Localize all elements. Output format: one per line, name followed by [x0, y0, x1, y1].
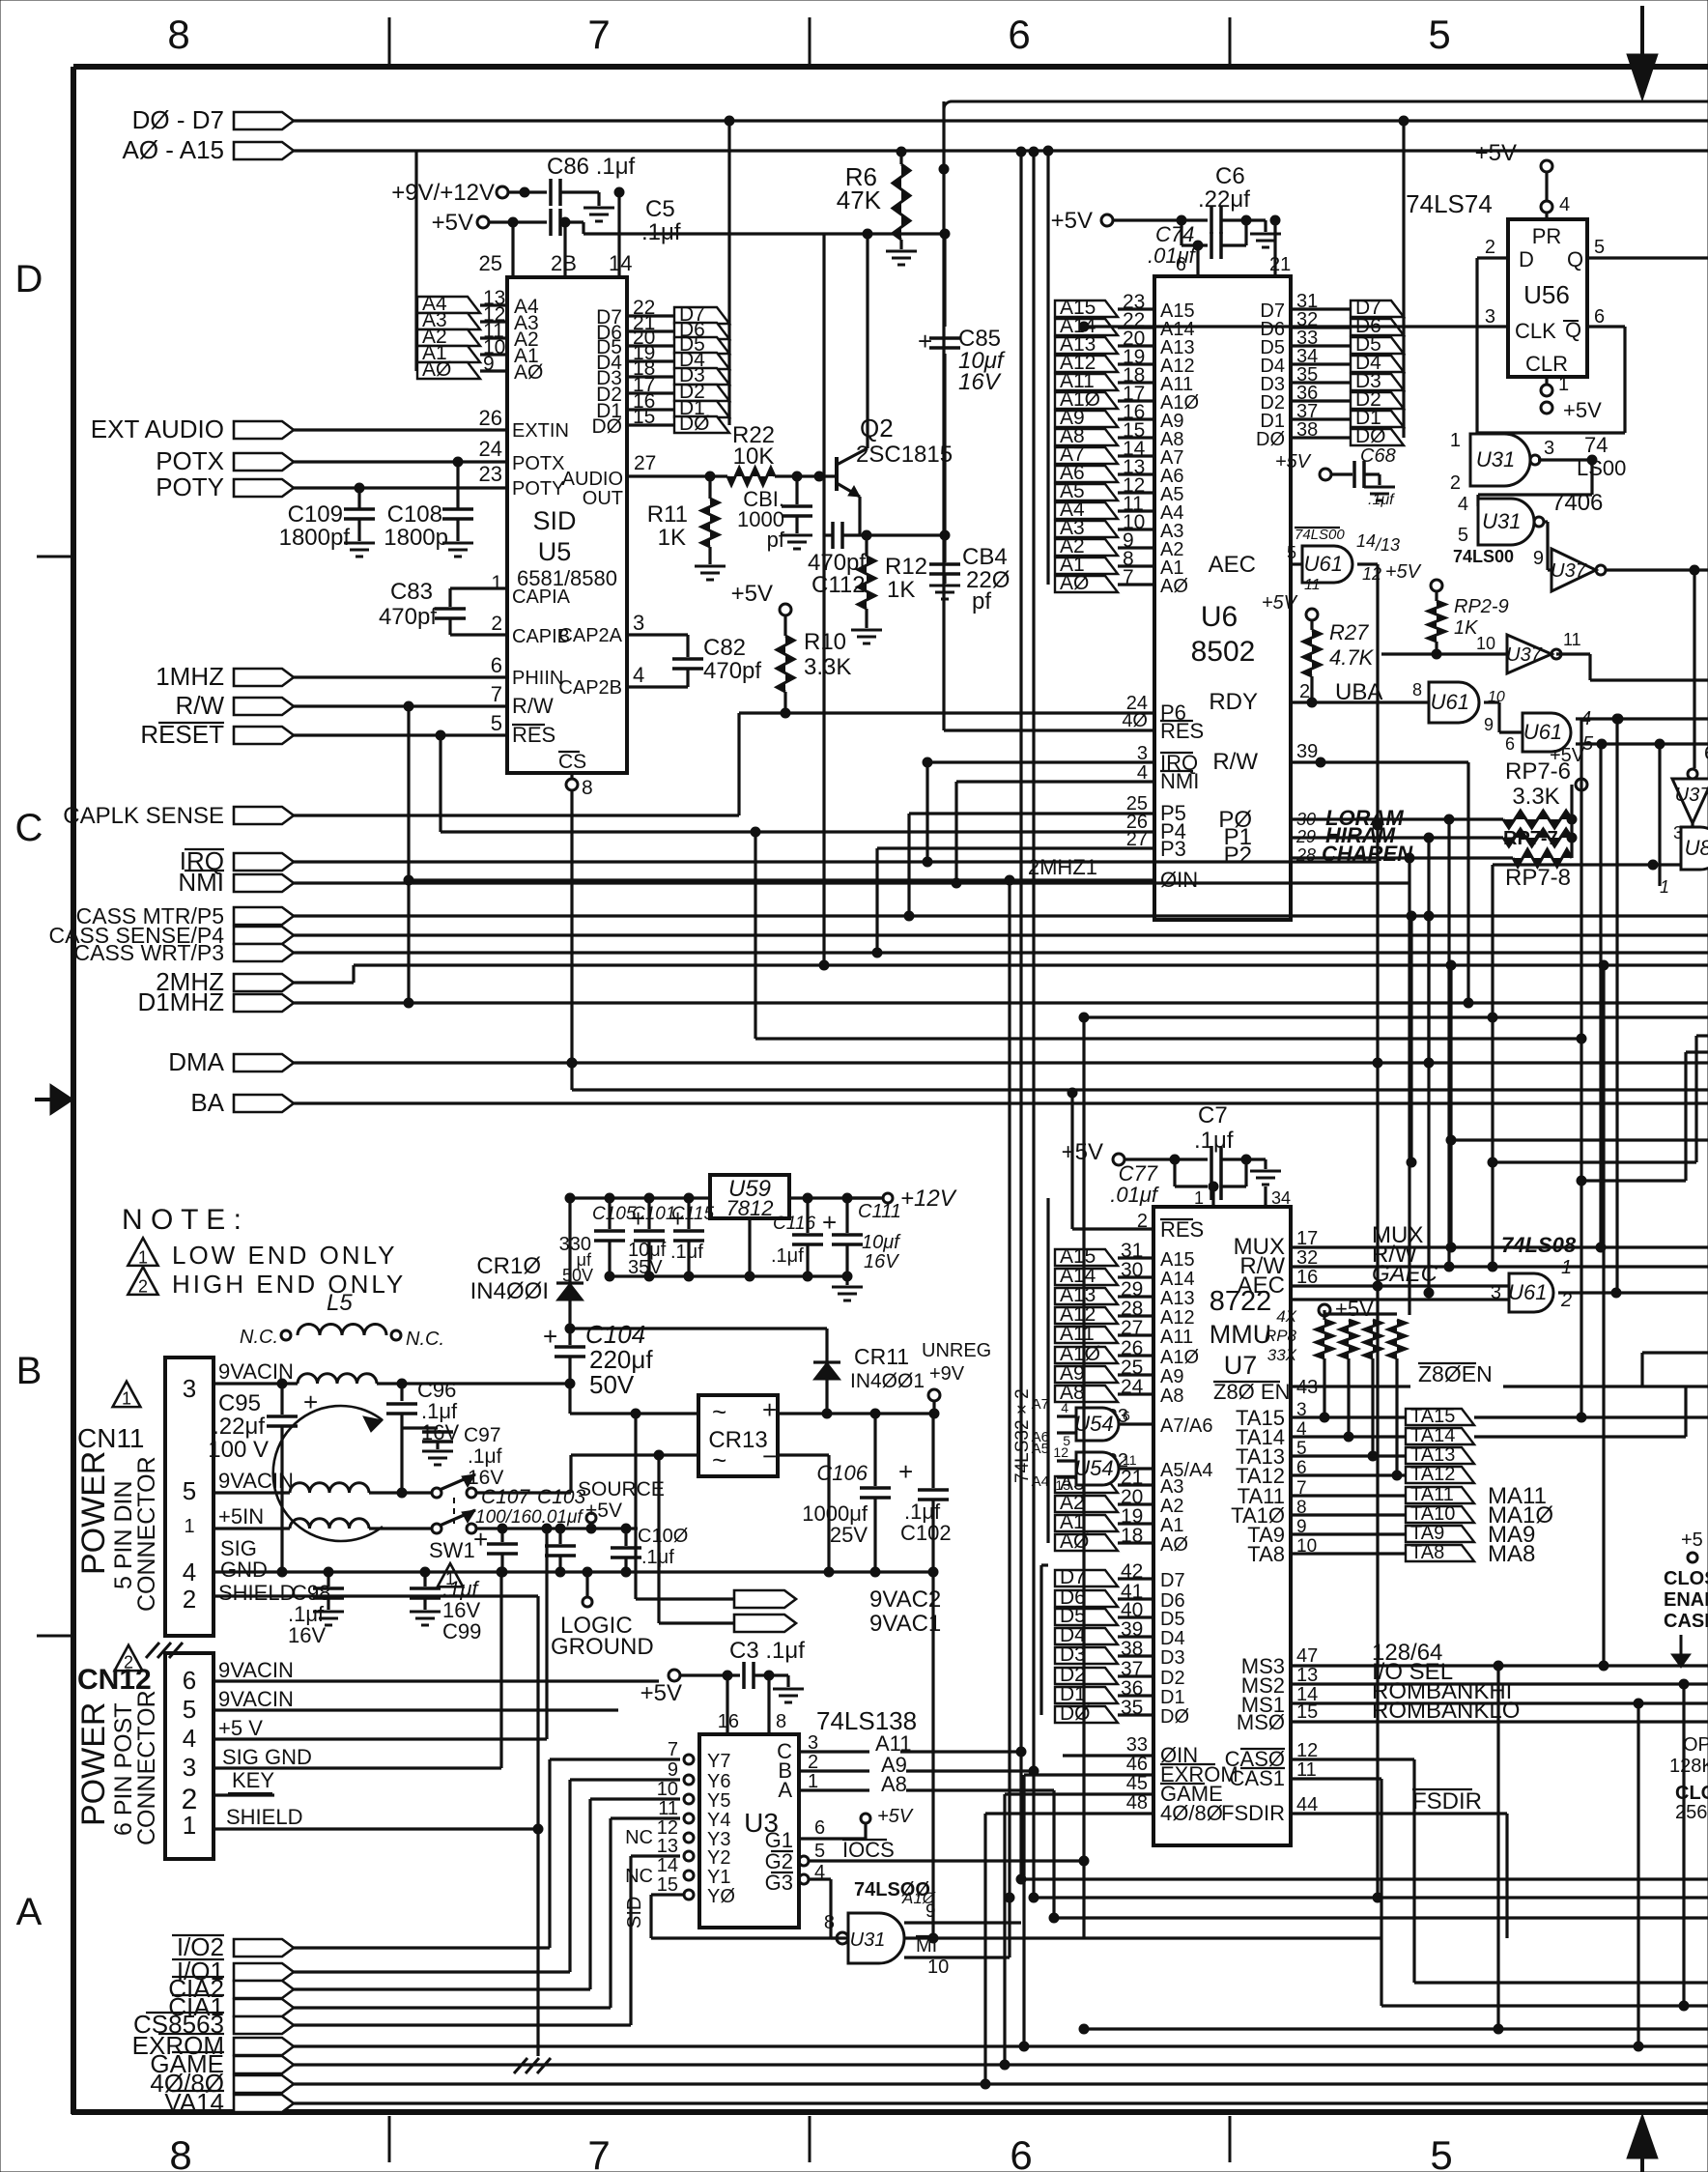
svg-text:U61: U61 [1508, 1280, 1547, 1304]
microprocessor U6 8502 body [1154, 276, 1291, 920]
node D1MHZ tag [234, 994, 294, 1012]
node NMI tag [234, 874, 294, 892]
svg-text:CONNECTOR: CONNECTOR [133, 1456, 160, 1612]
wire D0-D7 bus [294, 119, 1708, 122]
wire BA long [294, 1101, 1708, 1104]
svg-text:TA15: TA15 [1410, 1406, 1455, 1427]
svg-text:0.01μf: 0.01μf [531, 1507, 584, 1528]
svg-text:38: 38 [1296, 419, 1318, 441]
wire vertical 1502 [1449, 965, 1452, 1247]
svg-text:2: 2 [491, 613, 502, 635]
svg-text:SID: SID [624, 1897, 645, 1929]
wire U61c output [1558, 1291, 1708, 1294]
wire 2MHZ1 row to U6 phi-in [409, 878, 1154, 881]
svg-text:A15: A15 [1160, 1249, 1195, 1271]
wire 9VACIN pin5 riser to bridge [569, 1455, 572, 1493]
svg-text:pf: pf [767, 528, 785, 552]
svg-text:GROUND: GROUND [551, 1634, 654, 1660]
svg-text:RDY: RDY [1209, 689, 1258, 715]
inverter U37 c vertical at right edge [1672, 779, 1708, 823]
svg-text:A14: A14 [1160, 1269, 1195, 1290]
svg-text:15: 15 [657, 1874, 678, 1896]
svg-text:U54: U54 [1074, 1456, 1113, 1480]
svg-text:25V: 25V [830, 1523, 868, 1547]
svg-text:2: 2 [183, 1585, 196, 1614]
wire CAPLK SENSE right [294, 814, 739, 816]
svg-text:10: 10 [1476, 634, 1495, 653]
resistor R22 10K [727, 468, 775, 485]
wire Y0 run to CS region [651, 1893, 684, 1896]
svg-text:.01μf: .01μf [1148, 243, 1198, 268]
capacitor C116 .1uf [806, 1198, 809, 1233]
svg-text:4: 4 [183, 1724, 196, 1753]
node CASS MTR/P5 tag [234, 907, 294, 925]
capacitor C101 10uf 35V [647, 1198, 650, 1229]
svg-text:ENAB: ENAB [1664, 1589, 1708, 1611]
U7 address tags A15-A0 [1055, 1249, 1118, 1266]
svg-text:FSDIR: FSDIR [1412, 1788, 1482, 1815]
wire U37b input [1381, 652, 1507, 655]
svg-text:5: 5 [183, 1476, 196, 1505]
wire bus y1964 [1034, 1896, 1708, 1899]
wire CIA2 to decoder [294, 1987, 590, 1990]
svg-text:+9V/+12V: +9V/+12V [391, 180, 495, 206]
svg-text:NC: NC [625, 1827, 653, 1848]
svg-text:6: 6 [1176, 254, 1186, 275]
wire bus y1075 [755, 1037, 1581, 1040]
wire IOCS riser [1082, 1861, 1085, 1938]
svg-text:R/W: R/W [1212, 749, 1258, 775]
wire vertical 1637 upper [1580, 719, 1582, 1039]
wire P4 row to U6 pin26 [441, 830, 1154, 833]
wire A0-A15 bus [294, 149, 1708, 152]
svg-text:U54: U54 [1074, 1412, 1113, 1436]
svg-text:UBA: UBA [1335, 679, 1382, 705]
capacitor C100 .1uf [624, 1529, 627, 1546]
svg-text:CAS1: CAS1 [1230, 1766, 1285, 1790]
svg-text:TA14: TA14 [1410, 1425, 1455, 1446]
svg-text:A12: A12 [1160, 1307, 1195, 1329]
wire U7 pin34 stub [1264, 1186, 1267, 1207]
wire D-bus drop right of U5 [727, 121, 730, 425]
svg-text:6: 6 [1123, 1408, 1130, 1423]
svg-text:+: + [762, 1395, 777, 1424]
svg-text:8: 8 [582, 777, 593, 799]
wire I/O2 to decoder [294, 1946, 550, 1949]
svg-text:2SC1815: 2SC1815 [856, 442, 953, 468]
svg-text:11: 11 [1123, 1452, 1137, 1468]
logic gate U61 b [1523, 713, 1571, 752]
connector CN11 body [165, 1357, 213, 1636]
svg-text:DØ: DØ [1160, 1706, 1189, 1728]
svg-text:8502: 8502 [1191, 636, 1256, 668]
svg-text:+5V: +5V [432, 210, 473, 236]
wire RESET branch down to P4 row [439, 735, 441, 832]
svg-text:D7: D7 [1060, 1566, 1086, 1588]
capacitor C98 .1uf 16V [327, 1572, 329, 1586]
top ruler tick 6/5 [1229, 17, 1232, 64]
bottom ruler tick 7/6 [809, 2116, 811, 2162]
svg-text:B: B [16, 1350, 43, 1392]
svg-text:C68: C68 [1360, 445, 1396, 467]
switch SW1 [432, 1488, 441, 1498]
logic gate U31 a 74LS00 [1470, 434, 1530, 486]
svg-text:2MHZ1: 2MHZ1 [1028, 855, 1097, 879]
svg-text:7: 7 [491, 682, 502, 706]
svg-text:RES: RES [1160, 1217, 1204, 1242]
svg-text:RP2-9: RP2-9 [1454, 596, 1509, 617]
svg-text:TA8: TA8 [1410, 1542, 1444, 1563]
svg-text:/13: /13 [1374, 535, 1400, 555]
svg-text:POWER: POWER [75, 1451, 112, 1575]
logic gate U54 b 74LS32 [1076, 1452, 1119, 1485]
svg-text:74LS08: 74LS08 [1501, 1233, 1577, 1257]
wire bus y1203 [1493, 1160, 1696, 1163]
svg-text:+: + [898, 1457, 913, 1486]
wire LORAM riser down [1447, 819, 1450, 1267]
wire A10 line into gate [1008, 1898, 1011, 1958]
svg-text:RESET: RESET [140, 720, 224, 749]
svg-text:MA8: MA8 [1488, 1541, 1535, 1567]
ground at C6 [1264, 220, 1267, 232]
logic gate U61 a [1429, 682, 1479, 723]
svg-text:6: 6 [183, 1666, 196, 1695]
svg-text:A7/A6: A7/A6 [1160, 1415, 1212, 1437]
svg-text:16V: 16V [288, 1623, 326, 1647]
top ruler tick 8/7 [388, 17, 391, 64]
capacitor C108 1800pf [456, 462, 459, 509]
svg-text:8: 8 [1412, 680, 1422, 700]
svg-text:C102: C102 [900, 1521, 952, 1545]
svg-text:D1MHZ: D1MHZ [137, 987, 224, 1016]
svg-text:DØ: DØ [1060, 1702, 1091, 1725]
svg-text:IN4ØØI: IN4ØØI [470, 1278, 549, 1304]
svg-text:FSDIR: FSDIR [1221, 1801, 1285, 1825]
wire +5V riser to source [545, 1529, 548, 1739]
svg-text:POTY: POTY [512, 478, 564, 500]
svg-text:4Ø: 4Ø [1122, 710, 1148, 731]
wire 2MHZ jog up [352, 965, 355, 983]
svg-text:AØ - A15: AØ - A15 [123, 135, 225, 164]
wire U5 pin27 audio out [627, 474, 727, 477]
wire U5 pin25 stub [511, 222, 514, 277]
svg-text:~: ~ [712, 1445, 726, 1474]
svg-text:RP8: RP8 [1265, 1327, 1297, 1345]
svg-text:+5V: +5V [1335, 1297, 1374, 1321]
svg-text:4: 4 [1559, 194, 1570, 215]
capacitor C104 220uf 50V [568, 1329, 571, 1345]
wire D1MHZ long [294, 1001, 1708, 1004]
svg-text:33X: 33X [1267, 1346, 1297, 1364]
wire logic rail down [931, 1572, 934, 1938]
wire A-bus drop to U5 [414, 151, 417, 371]
svg-text:CLOS: CLOS [1675, 1783, 1708, 1804]
capacitor C111 10uf 16V [845, 1198, 848, 1233]
svg-text:CAPLK SENSE: CAPLK SENSE [63, 803, 224, 829]
svg-text:9VACIN: 9VACIN [218, 1469, 294, 1493]
svg-text:11: 11 [1304, 577, 1321, 593]
wire regulator input rail [570, 1196, 710, 1199]
logic gate U31 c bottom [829, 1879, 832, 1938]
wire 9VAC1 to bridge [659, 1621, 734, 1624]
svg-text:10: 10 [927, 1957, 949, 1978]
svg-text:14: 14 [657, 1855, 678, 1876]
wire R22 to Q2 base [775, 474, 837, 477]
svg-text:1: 1 [122, 1389, 131, 1409]
svg-text:AEC: AEC [1209, 552, 1256, 578]
svg-text:R/W: R/W [512, 694, 554, 718]
svg-text:CAP2A: CAP2A [558, 625, 622, 646]
svg-text:NC: NC [625, 1866, 653, 1887]
svg-text:RP7-8: RP7-8 [1505, 865, 1571, 891]
svg-text:D1: D1 [1160, 1687, 1185, 1708]
svg-text:POWER: POWER [75, 1702, 112, 1826]
wire regulator ground rail [610, 1274, 847, 1277]
wire DMA long [294, 1061, 1708, 1064]
node I/O2 tag [234, 1939, 294, 1957]
svg-text:DMA: DMA [168, 1047, 224, 1076]
svg-text:28: 28 [1295, 845, 1316, 865]
svg-text:U5: U5 [538, 537, 572, 566]
wire U6 pin21 stub [1273, 220, 1276, 276]
svg-text:C99: C99 [442, 1619, 481, 1643]
svg-text:.1μf: .1μf [771, 1245, 804, 1267]
top fold arrow [1640, 6, 1644, 56]
svg-text:NMI: NMI [178, 868, 224, 897]
svg-text:AØ: AØ [1160, 576, 1188, 597]
wire vertical 1057 [1019, 152, 1022, 1752]
svg-text:U6: U6 [1201, 601, 1238, 633]
capacitor C106 1000uf 25V [873, 1414, 876, 1486]
wire RES riser from bus corner [942, 101, 945, 730]
svg-text:+: + [473, 1525, 488, 1554]
wire vertical 1479 upper [1427, 916, 1430, 1063]
U56 CLR pin 1 [1545, 377, 1548, 385]
svg-text:3: 3 [183, 1374, 196, 1403]
svg-text:6: 6 [814, 1817, 825, 1839]
wire R/W branch down [407, 706, 410, 1003]
svg-text:SHIELD: SHIELD [218, 1581, 295, 1605]
svg-text:74LS74: 74LS74 [1406, 189, 1493, 218]
svg-text:A2: A2 [1160, 1496, 1183, 1517]
wire RES row to U6 pin40 [944, 729, 1154, 731]
svg-text:+5V: +5V [1550, 745, 1585, 766]
svg-text:CHAREN: CHAREN [1322, 842, 1413, 866]
wire bus y1985 [1054, 1916, 1708, 1919]
wire CR13 plus output [778, 1412, 933, 1415]
svg-text:PR: PR [1532, 224, 1562, 248]
svg-text:IN4ØØ1: IN4ØØ1 [850, 1370, 925, 1392]
svg-text:2: 2 [1450, 472, 1461, 494]
node CIA1 tag [234, 1999, 294, 2016]
svg-text:U61: U61 [1304, 552, 1343, 576]
wire bus y1945 [1021, 1877, 1708, 1880]
capacitor C112 470pf in emitter line [823, 533, 833, 536]
wire CASS WRT long [294, 951, 1708, 954]
svg-text:1800pf: 1800pf [279, 525, 351, 551]
svg-text:Y7: Y7 [707, 1751, 730, 1772]
svg-text:BA: BA [190, 1088, 224, 1117]
wire switch to source node [476, 1527, 638, 1529]
svg-text:+5V: +5V [1385, 561, 1422, 583]
svg-text:1: 1 [1558, 374, 1569, 395]
inverter U37 a 7406 [1544, 520, 1548, 523]
svg-text:U37: U37 [1675, 785, 1708, 806]
svg-text:5: 5 [183, 1695, 196, 1724]
wire D-bus drop to U7 [1039, 1565, 1042, 1715]
node 40/80 tag [234, 2075, 294, 2093]
svg-text:A11: A11 [1060, 1323, 1095, 1345]
node CASS SENSE/P4 tag [234, 927, 294, 944]
node EXROM tag [234, 2038, 294, 2055]
wire R/W to U5 pin7 [294, 704, 507, 707]
svg-text:AØ: AØ [422, 358, 451, 381]
svg-text:C95: C95 [218, 1390, 261, 1416]
node 2MHZ tag [234, 974, 294, 991]
svg-text:3: 3 [1137, 743, 1148, 764]
U5 address bus tags A4-A0 [417, 297, 480, 313]
svg-text:6: 6 [1704, 743, 1708, 764]
wire U5 pin28 stub [563, 222, 566, 277]
wire U7 pin1 stub [1211, 1186, 1214, 1207]
svg-text:15: 15 [633, 406, 655, 428]
svg-text:256: 256 [1675, 1802, 1707, 1823]
svg-text:10μf: 10μf [862, 1232, 901, 1253]
wire Q2 collector up [866, 234, 868, 448]
ic U3 74LS138 body [699, 1734, 799, 1928]
svg-text:MMU: MMU [1210, 1320, 1271, 1349]
svg-text:TA13: TA13 [1410, 1444, 1455, 1466]
wire shield down to chassis [536, 1596, 539, 2056]
svg-text:U7: U7 [1224, 1351, 1258, 1380]
svg-text:AØ: AØ [1060, 572, 1089, 594]
resistor R11 1K [708, 476, 711, 499]
svg-text:C116: C116 [773, 1214, 815, 1234]
svg-text:CS: CS [558, 751, 586, 773]
top ruler tick 7/6 [809, 17, 811, 64]
logic gate U54 a 74LS32 [1076, 1408, 1119, 1441]
wire FSDIR down [1505, 1814, 1508, 1938]
svg-text:47: 47 [1296, 1645, 1318, 1667]
capacitor C96 .1uf 16V [400, 1384, 403, 1401]
chassis ground below shield [514, 2058, 551, 2073]
svg-text:9: 9 [668, 1759, 678, 1781]
wire 2MHZ long [294, 981, 354, 984]
svg-text:13: 13 [1055, 1477, 1070, 1493]
svg-text:26: 26 [479, 406, 502, 430]
svg-text:AEC: AEC [1238, 1272, 1285, 1299]
svg-text:15: 15 [1296, 1701, 1318, 1723]
wire EXROM riser [1022, 1775, 1025, 2046]
node BA tag [234, 1095, 294, 1112]
svg-text:VA14: VA14 [164, 2088, 224, 2117]
svg-text:D: D [1519, 247, 1534, 271]
wire unreg node line [570, 1327, 827, 1329]
svg-text:7: 7 [587, 12, 610, 57]
wire R/W down [1466, 762, 1469, 1003]
wire A-bus drop to U7 [1046, 1198, 1049, 1543]
wire CS line down [570, 790, 573, 1090]
svg-text:34: 34 [1271, 1188, 1291, 1208]
svg-text:D2: D2 [1160, 1668, 1185, 1689]
svg-text:3: 3 [1544, 438, 1554, 459]
wire C85 top rail [824, 232, 945, 235]
diode CR11 1N4001 [825, 1329, 828, 1362]
svg-text:16: 16 [718, 1711, 739, 1732]
svg-text:pf: pf [972, 588, 991, 614]
node A0-A15 input tag [234, 142, 294, 159]
svg-text:A: A [16, 1891, 43, 1933]
wire Q2 emitter down [858, 497, 861, 535]
bottom ruler tick 8/7 [388, 2116, 391, 2162]
svg-text:4.7K: 4.7K [1329, 645, 1375, 670]
svg-text:13: 13 [657, 1836, 678, 1857]
capacitor C115 .1uf [687, 1198, 690, 1229]
svg-text:74LS00: 74LS00 [1295, 527, 1345, 543]
svg-text:25: 25 [479, 251, 502, 275]
svg-text:3.3K: 3.3K [804, 654, 851, 680]
svg-text:CONNECTOR: CONNECTOR [133, 1690, 160, 1845]
svg-text:C10Ø: C10Ø [638, 1526, 688, 1547]
svg-text:6: 6 [1505, 734, 1515, 754]
svg-text:6: 6 [1008, 12, 1030, 57]
node RESET tag [234, 727, 294, 744]
svg-text:1: 1 [491, 572, 502, 594]
svg-text:CLR: CLR [1525, 352, 1568, 376]
wire elbow right y1089 [1686, 1050, 1708, 1053]
svg-text:TA9: TA9 [1410, 1523, 1444, 1544]
svg-text:+5V: +5V [1062, 1139, 1103, 1165]
node GAME tag [234, 2056, 294, 2073]
svg-text:10: 10 [657, 1779, 678, 1800]
wire SIGGND riser [499, 1572, 502, 1768]
svg-text:R/W: R/W [175, 691, 224, 720]
wire U31a output [1538, 458, 1592, 461]
svg-text:C108: C108 [387, 501, 442, 528]
wire VA14 long [294, 2101, 1708, 2104]
svg-text:SW1: SW1 [429, 1538, 475, 1562]
wire vertical 1551 lower [1496, 1666, 1499, 2029]
svg-text:CASS WRT/P3: CASS WRT/P3 [74, 940, 225, 965]
svg-text:RP7-7: RP7-7 [1503, 828, 1558, 849]
svg-text:CR1Ø: CR1Ø [476, 1253, 541, 1279]
svg-text:OP: OP [1683, 1734, 1708, 1756]
svg-text:74: 74 [1584, 433, 1608, 457]
svg-text:27: 27 [1126, 829, 1148, 850]
capacitor C105 330uf 50V [608, 1198, 611, 1229]
wire LORAM [1291, 817, 1503, 820]
svg-text:470pf: 470pf [703, 658, 761, 684]
wire CS junction on DMA [567, 1058, 577, 1068]
svg-text:48: 48 [1126, 1792, 1148, 1814]
wire 9VAC2 to bridge [636, 1597, 734, 1600]
wire vertical 1122 to IOCS [1079, 1013, 1089, 1022]
wire TA14 corner [1474, 1435, 1686, 1438]
svg-text:U31: U31 [1482, 509, 1521, 533]
node D0-D7 input tag [234, 112, 294, 129]
wire 9VACIN pin3 to bridge node [377, 1382, 570, 1385]
svg-text:23: 23 [479, 462, 502, 486]
svg-text:11: 11 [1563, 630, 1581, 649]
svg-text:1: 1 [1194, 1188, 1204, 1208]
svg-text:2: 2 [1485, 237, 1495, 258]
wire emitter node right [860, 533, 945, 536]
svg-text:470pf: 470pf [379, 604, 437, 630]
wire CHAREN riser down [1408, 858, 1410, 1315]
svg-text:TA12: TA12 [1410, 1464, 1455, 1485]
ground at C7 [1264, 1159, 1267, 1169]
tag 9VAC1 [734, 1615, 796, 1632]
